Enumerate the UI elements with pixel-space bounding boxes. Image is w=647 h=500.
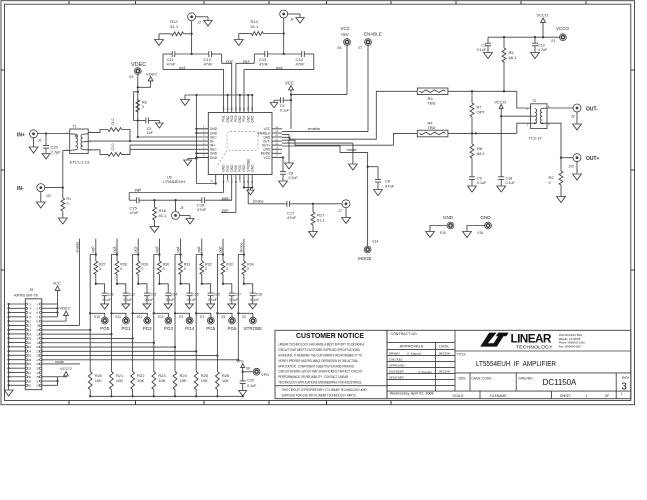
ground at J4 <box>296 18 304 24</box>
wire to E4 <box>196 313 211 317</box>
wire T1 pin3 chain <box>88 130 108 133</box>
wire J2 to ground stub <box>195 17 208 21</box>
ground at C5 <box>156 123 163 128</box>
svg-text:0.1uF: 0.1uF <box>102 298 111 302</box>
ground at C8 <box>279 181 288 187</box>
svg-text:SUPPLIED FOR USE WITH LINEAR T: SUPPLIED FOR USE WITH LINEAR TECHNOLOGY … <box>282 392 357 397</box>
svg-text:R28: R28 <box>120 263 127 267</box>
label PG3 <box>164 326 174 331</box>
border inner frame <box>5 4 631 400</box>
power flag VCCO mid <box>495 100 507 117</box>
resistor R34 0 <box>242 255 254 284</box>
node R8 top <box>137 91 139 93</box>
title block designer row <box>389 375 404 379</box>
net label pg4 <box>276 65 283 70</box>
ground at C28 <box>249 304 257 309</box>
svg-text:J11: J11 <box>46 194 51 198</box>
wire strobe column lower <box>237 313 239 360</box>
resistor R26 10K <box>216 372 231 397</box>
node R29 bottom <box>137 283 139 285</box>
svg-text:V. Dvorkin: V. Dvorkin <box>418 370 432 374</box>
resistor R30 0 <box>158 255 170 284</box>
svg-text:pg5: pg5 <box>134 187 143 192</box>
svg-text:enable: enable <box>308 126 321 131</box>
resistor R4 TBD <box>414 120 517 137</box>
svg-text:25: 25 <box>251 107 254 110</box>
resistor R1 0 <box>61 188 71 218</box>
wire loop2 left <box>253 54 255 63</box>
svg-text:VDEC: VDEC <box>146 71 157 76</box>
net label pg5 column <box>197 247 201 253</box>
capacitor C19 4.7uF <box>532 37 548 52</box>
label VDEC <box>131 62 146 68</box>
svg-text:pg0: pg0 <box>91 247 95 253</box>
svg-text:C22: C22 <box>129 293 135 297</box>
svg-text:3: 3 <box>89 130 91 134</box>
svg-text:DATE: DATE <box>439 345 449 349</box>
svg-text:E3: E3 <box>179 315 183 319</box>
node C6 <box>366 166 368 168</box>
svg-text:51.1: 51.1 <box>159 213 168 218</box>
svg-text:68.1: 68.1 <box>477 151 486 156</box>
wire to E12 <box>133 313 148 317</box>
wire loop1 left+bottom <box>163 54 224 69</box>
label PG4 <box>185 326 195 331</box>
wire to E13 <box>154 313 169 317</box>
net label pg1 <box>179 65 186 70</box>
svg-text:27: 27 <box>243 107 246 110</box>
wire pg5 to C15 row <box>128 193 130 201</box>
resistor R3 TBD <box>414 88 472 105</box>
wire to E11 <box>111 313 126 317</box>
svg-text:0: 0 <box>205 267 207 271</box>
ground at C9 <box>468 186 477 192</box>
capacitor C20 2.7pF <box>43 134 61 155</box>
node J4-R14 <box>283 32 285 34</box>
svg-text:GND: GND <box>250 115 254 123</box>
power flag VCC J5 <box>53 281 62 294</box>
wire bypass bracket 0 <box>90 255 96 314</box>
title block approvals hdr <box>400 344 450 349</box>
node J2-R12 <box>190 33 192 35</box>
svg-text:pg2: pg2 <box>134 247 138 253</box>
connector J2 <box>188 13 201 25</box>
svg-text:E9: E9 <box>130 75 134 79</box>
connector E4 <box>200 315 214 324</box>
wire bypass bracket 4 <box>175 255 181 314</box>
svg-text:pg3: pg3 <box>155 247 159 253</box>
connector E7 ENABLE <box>359 32 382 51</box>
ground at R12 <box>155 40 164 46</box>
ground at R16 <box>150 227 159 233</box>
connector J5 40PINS SMT-TB <box>14 288 42 390</box>
svg-text:Milpitas, CA 95035: Milpitas, CA 95035 <box>559 337 581 341</box>
wire E6 to VCC node <box>291 46 347 95</box>
svg-text:Wednesday, April 02, 2008: Wednesday, April 02, 2008 <box>390 392 434 396</box>
svg-text:Phone: (408)432-1900: Phone: (408)432-1900 <box>559 341 586 345</box>
label IN- <box>17 186 24 192</box>
svg-text:PG3: PG3 <box>164 326 174 331</box>
wire GND top rail <box>185 95 252 100</box>
border outer frame <box>1 1 635 405</box>
svg-text:T2: T2 <box>532 99 536 103</box>
power flag VPG <box>236 360 245 372</box>
ground at C29 <box>239 391 247 396</box>
resistor R5 68.1 <box>502 37 517 91</box>
node R34 bottom <box>243 283 245 285</box>
node VCC rail <box>290 93 292 95</box>
svg-text:APPLICATION. COMPONENT SUBSTI: APPLICATION. COMPONENT SUBSTITUTION AND … <box>278 363 354 368</box>
wire J11 to node <box>45 187 63 189</box>
net label pg0 column <box>91 247 95 253</box>
wire bottom rail <box>89 395 244 397</box>
svg-text:28: 28 <box>239 107 242 110</box>
border zone ticks top <box>69 1 586 4</box>
svg-text:0.1uF: 0.1uF <box>123 298 132 302</box>
wire J5 VDEC row <box>42 318 66 322</box>
ground at U5 left <box>184 159 197 166</box>
resistor R28 0 <box>115 255 127 284</box>
J5 pin contacts <box>25 303 41 387</box>
label VCC top <box>285 80 294 85</box>
svg-text:PG0: PG0 <box>100 326 110 331</box>
ground at R2 <box>557 197 566 203</box>
net label pg1 column <box>112 247 116 253</box>
wire column 6 lower <box>216 313 218 371</box>
ground at J2 <box>204 21 212 27</box>
resistor R33 0 <box>221 255 233 284</box>
svg-text:47nF: 47nF <box>130 210 140 215</box>
node column 5 circle branch <box>195 312 197 314</box>
wire pin22 gnd <box>282 134 289 163</box>
resistor R2 0 <box>549 158 563 197</box>
wire R8 bypass <box>134 92 138 121</box>
logo Linear Technology <box>480 332 553 351</box>
svg-text:VCC: VCC <box>285 80 294 85</box>
U5 right pins 24-17 <box>258 126 279 160</box>
svg-text:TECHNOLOGY: TECHNOLOGY <box>516 345 553 351</box>
resistor R29 0 <box>136 255 148 284</box>
ground at C23 <box>143 304 151 309</box>
svg-text:LT5554EUH: LT5554EUH <box>163 179 185 184</box>
svg-text:VCCO: VCCO <box>60 366 72 371</box>
ground at J1 <box>29 137 38 153</box>
svg-text:R27: R27 <box>99 263 106 267</box>
svg-text:mode: mode <box>55 360 64 364</box>
label PG2 <box>143 326 153 331</box>
customer notice footer <box>282 387 367 397</box>
svg-text:47nF: 47nF <box>259 62 269 67</box>
capacitor C15 47nF <box>130 197 140 215</box>
svg-text:1uF: 1uF <box>147 131 154 135</box>
svg-text:E5: E5 <box>222 315 226 319</box>
svg-text:GND: GND <box>250 164 254 172</box>
svg-text:R29: R29 <box>141 263 148 267</box>
svg-text:10K: 10K <box>137 378 144 383</box>
svg-text:mode: mode <box>347 147 358 152</box>
svg-text:ENABLE: ENABLE <box>364 32 382 37</box>
svg-text:31: 31 <box>227 107 230 110</box>
svg-text:9: 9 <box>223 180 226 182</box>
connector E9 VDEC <box>130 68 142 79</box>
node R31 bottom <box>179 283 181 285</box>
svg-text:E13: E13 <box>158 315 164 319</box>
connector J4 <box>280 10 294 22</box>
power flag VDEC <box>146 71 157 84</box>
connector E16 GND <box>440 215 454 235</box>
title block TITLE <box>457 353 557 368</box>
node R30 bottom <box>158 283 160 285</box>
capacitor C22 0.1uF <box>117 284 135 304</box>
svg-text:+5V: +5V <box>341 32 349 37</box>
svg-text:15: 15 <box>247 180 250 183</box>
svg-text:MODE: MODE <box>358 256 372 261</box>
svg-text:0.1uF: 0.1uF <box>208 298 217 302</box>
svg-text:C2 0: C2 0 <box>111 143 115 150</box>
U5 bottom pin stubs <box>224 175 253 181</box>
capacitor C29 0.1uF <box>240 372 257 391</box>
svg-text:VCC: VCC <box>53 281 62 286</box>
wire U5 bottom GND link <box>243 180 254 188</box>
ground at C21 <box>101 304 109 309</box>
ground at C3 <box>484 53 493 59</box>
net label pg6 <box>221 195 232 200</box>
wire C15 row <box>129 180 232 200</box>
wire J5 left GND bus <box>7 303 25 390</box>
wire pg1 column top <box>116 239 118 256</box>
wire loop1 top <box>163 53 222 55</box>
resistor R8 0 <box>136 100 147 112</box>
connector E8 VPG <box>243 367 270 377</box>
wire J2 down <box>191 21 193 54</box>
svg-text:47nF: 47nF <box>167 62 177 67</box>
svg-text:CAGE CODE: CAGE CODE <box>471 377 492 381</box>
svg-text:10K: 10K <box>180 378 187 383</box>
svg-text:APPROVED: APPROVED <box>389 363 405 367</box>
svg-text:0: 0 <box>120 267 122 271</box>
node R28 bottom <box>116 283 118 285</box>
net label pg3 column <box>155 247 159 253</box>
connector J7 <box>339 200 351 213</box>
svg-text:C1 0: C1 0 <box>111 118 115 125</box>
wire to E10 <box>90 313 105 317</box>
resistor R23 10K <box>152 372 167 397</box>
ground at J11 <box>36 191 45 208</box>
capacitor C4 0.1uF <box>274 97 291 112</box>
svg-text:29: 29 <box>235 107 238 110</box>
svg-text:TECHNOLOGY APPLICATIONS ENGINE: TECHNOLOGY APPLICATIONS ENGINEERING FOR … <box>278 380 362 385</box>
node R16 <box>153 199 155 201</box>
svg-text:pg4: pg4 <box>176 247 180 253</box>
connector E11 <box>116 315 130 324</box>
svg-text:E7: E7 <box>359 46 363 50</box>
label IN+ <box>17 133 25 139</box>
wire ENABLE net <box>282 46 368 132</box>
customer notice body <box>278 342 364 385</box>
connector E14 MODE <box>358 240 378 262</box>
wire to T2 pri top <box>517 91 531 108</box>
svg-text:J5: J5 <box>29 288 33 292</box>
capacitor C9 0.1uF <box>469 177 487 187</box>
node column 6 circle branch <box>216 312 218 314</box>
svg-text:pg2: pg2 <box>226 58 233 63</box>
node GND top pins <box>195 94 253 96</box>
svg-text:40PINS SMT-TB: 40PINS SMT-TB <box>14 294 38 298</box>
ground at C25 <box>185 304 193 309</box>
wire J5 mode row <box>42 360 80 364</box>
wire R3 node to R5 <box>472 90 517 92</box>
svg-text:47nF: 47nF <box>204 62 214 67</box>
svg-text:pg1: pg1 <box>179 65 186 70</box>
capacitor C24 0.1uF <box>159 284 177 304</box>
ground at R14 <box>234 40 243 46</box>
svg-text:32: 32 <box>223 107 226 110</box>
ground at J9 <box>573 112 582 130</box>
svg-text:0: 0 <box>142 105 144 109</box>
svg-text:30: 30 <box>231 107 234 110</box>
element C1 0 <box>108 118 122 131</box>
svg-text:J6: J6 <box>180 206 184 210</box>
ground at C24 <box>164 304 172 309</box>
node R17 <box>312 203 314 205</box>
wire T2 to J9 <box>546 107 574 109</box>
node R33 bottom <box>222 283 224 285</box>
ground at J33 <box>573 162 582 181</box>
capacitor C14 47nF <box>296 51 306 67</box>
svg-text:enable: enable <box>75 242 79 253</box>
svg-text:E4: E4 <box>200 315 204 319</box>
wire bus row pin21 <box>42 346 176 348</box>
U5 top GND stubs <box>228 95 253 113</box>
ground at C20 <box>42 154 50 160</box>
svg-text:CIRCUIT BOARD LAYOUT MAY SIGNI: CIRCUIT BOARD LAYOUT MAY SIGNIFICANTLY A… <box>278 369 362 374</box>
power flag VCC <box>289 86 294 129</box>
wire pin19 gnd <box>282 143 353 164</box>
svg-text:10: 10 <box>227 180 230 183</box>
node GND left pins <box>195 128 197 160</box>
wire OUT- to R3 <box>282 91 414 139</box>
border zone ticks right <box>631 70 635 270</box>
connector J6 <box>172 200 184 219</box>
node R7 top <box>471 90 473 92</box>
wire to E2 <box>238 313 253 317</box>
node pin3 <box>137 136 139 138</box>
connector J9 OUT- <box>571 104 598 119</box>
customer notice title <box>296 331 364 340</box>
wire to T2 pin1 <box>517 123 531 133</box>
J5 pin numbers <box>28 302 40 387</box>
connector E2 <box>242 315 256 324</box>
wire bus row pin27 <box>42 359 239 361</box>
capacitor C18 0.1uF <box>498 116 515 186</box>
wire strobe net <box>248 180 287 204</box>
node J4-C13C14 <box>283 53 285 55</box>
wire pg3 <box>236 63 254 112</box>
svg-text:E12: E12 <box>137 315 143 319</box>
svg-text:R33: R33 <box>226 263 233 267</box>
wire VDEC arrow branch <box>138 85 151 88</box>
capacitor C21 0.1uF <box>96 284 114 304</box>
node C1 join <box>129 140 131 142</box>
svg-text:C23: C23 <box>150 293 156 297</box>
wire J4 down <box>283 18 285 54</box>
capacitor C25 0.1uF <box>181 284 199 304</box>
capacitor C13 47nF <box>259 51 269 67</box>
wire J5 VCCO rows <box>42 377 66 386</box>
svg-text:pg6: pg6 <box>218 247 222 253</box>
node J2-C11C12 <box>190 53 192 55</box>
svg-text:R1: R1 <box>67 197 72 201</box>
svg-text:SCALE:: SCALE: <box>452 394 464 398</box>
svg-text:OF: OF <box>605 394 610 398</box>
title block engineer row <box>389 369 451 374</box>
svg-text:08/23/06: 08/23/06 <box>439 351 451 355</box>
wire column 0 lower <box>89 313 91 371</box>
capacitor C8 0.1uF <box>280 158 286 182</box>
ground at pin22 <box>285 163 294 169</box>
node C18 top <box>500 115 502 117</box>
connector E3 <box>179 315 193 324</box>
resistor R17 51.1 <box>311 204 325 232</box>
wire J5 VCC rows <box>42 293 59 317</box>
svg-text:THIS CIRCUIT IS PROPRIETARY TO: THIS CIRCUIT IS PROPRIETARY TO LINEAR TE… <box>282 387 367 392</box>
svg-text:GND: GND <box>210 156 218 160</box>
capacitor C17 47nF <box>287 201 313 220</box>
U5 left pins 1-8 <box>196 126 217 160</box>
svg-text:0.1uF: 0.1uF <box>289 176 299 180</box>
svg-text:PG4: PG4 <box>185 326 195 331</box>
title block contract <box>390 332 417 336</box>
wire to E5 <box>217 313 232 317</box>
title block drawn row <box>389 351 451 355</box>
svg-text:PERFORMANCE OR RELIABILITY. C: PERFORMANCE OR RELIABILITY. CONTACT LINE… <box>278 374 348 379</box>
svg-text:1: 1 <box>621 392 623 396</box>
svg-text:PG1: PG1 <box>121 326 131 331</box>
svg-text:Fax: (408)434-0507: Fax: (408)434-0507 <box>559 344 582 348</box>
svg-text:VCC: VCC <box>341 26 351 31</box>
wire bypass bracket 5 <box>196 255 202 314</box>
connector E1 VCCO <box>552 26 570 43</box>
capacitor C27 0.1uF <box>223 284 241 304</box>
wire bus row pin23 <box>42 350 197 352</box>
svg-text:PG5: PG5 <box>206 326 216 331</box>
node R27 bottom <box>95 283 97 285</box>
wire to J7 <box>313 203 342 205</box>
wire pg1 down to U5 <box>223 69 225 112</box>
wire pg6 column top <box>222 239 224 256</box>
border zone ticks left <box>1 70 5 270</box>
wire pg0 column top <box>95 239 97 256</box>
svg-text:T1: T1 <box>72 124 76 128</box>
svg-text:strobe: strobe <box>239 243 243 253</box>
svg-text:PG6: PG6 <box>227 326 237 331</box>
svg-text:VERIFY PROPER AND RELIABLE OPE: VERIFY PROPER AND RELIABLE OPERATION IN … <box>278 358 359 363</box>
U5 top pin labels <box>222 107 255 123</box>
connector J33 OUT+ <box>569 154 600 169</box>
svg-text:0: 0 <box>67 201 69 205</box>
svg-text:0.1uF: 0.1uF <box>506 181 516 185</box>
node column 0 circle branch <box>89 312 91 314</box>
svg-text:26: 26 <box>247 107 250 110</box>
capacitor C23 0.1uF <box>138 284 156 304</box>
svg-text:pg3: pg3 <box>243 58 250 63</box>
svg-text:VPG.: VPG. <box>261 373 270 377</box>
node R1 <box>62 186 64 188</box>
ground under U5 <box>247 188 254 195</box>
svg-text:CUSTOMER NOTICE: CUSTOMER NOTICE <box>296 331 364 340</box>
resistor R16 51.1 <box>153 200 167 226</box>
connector J11 <box>37 184 51 198</box>
